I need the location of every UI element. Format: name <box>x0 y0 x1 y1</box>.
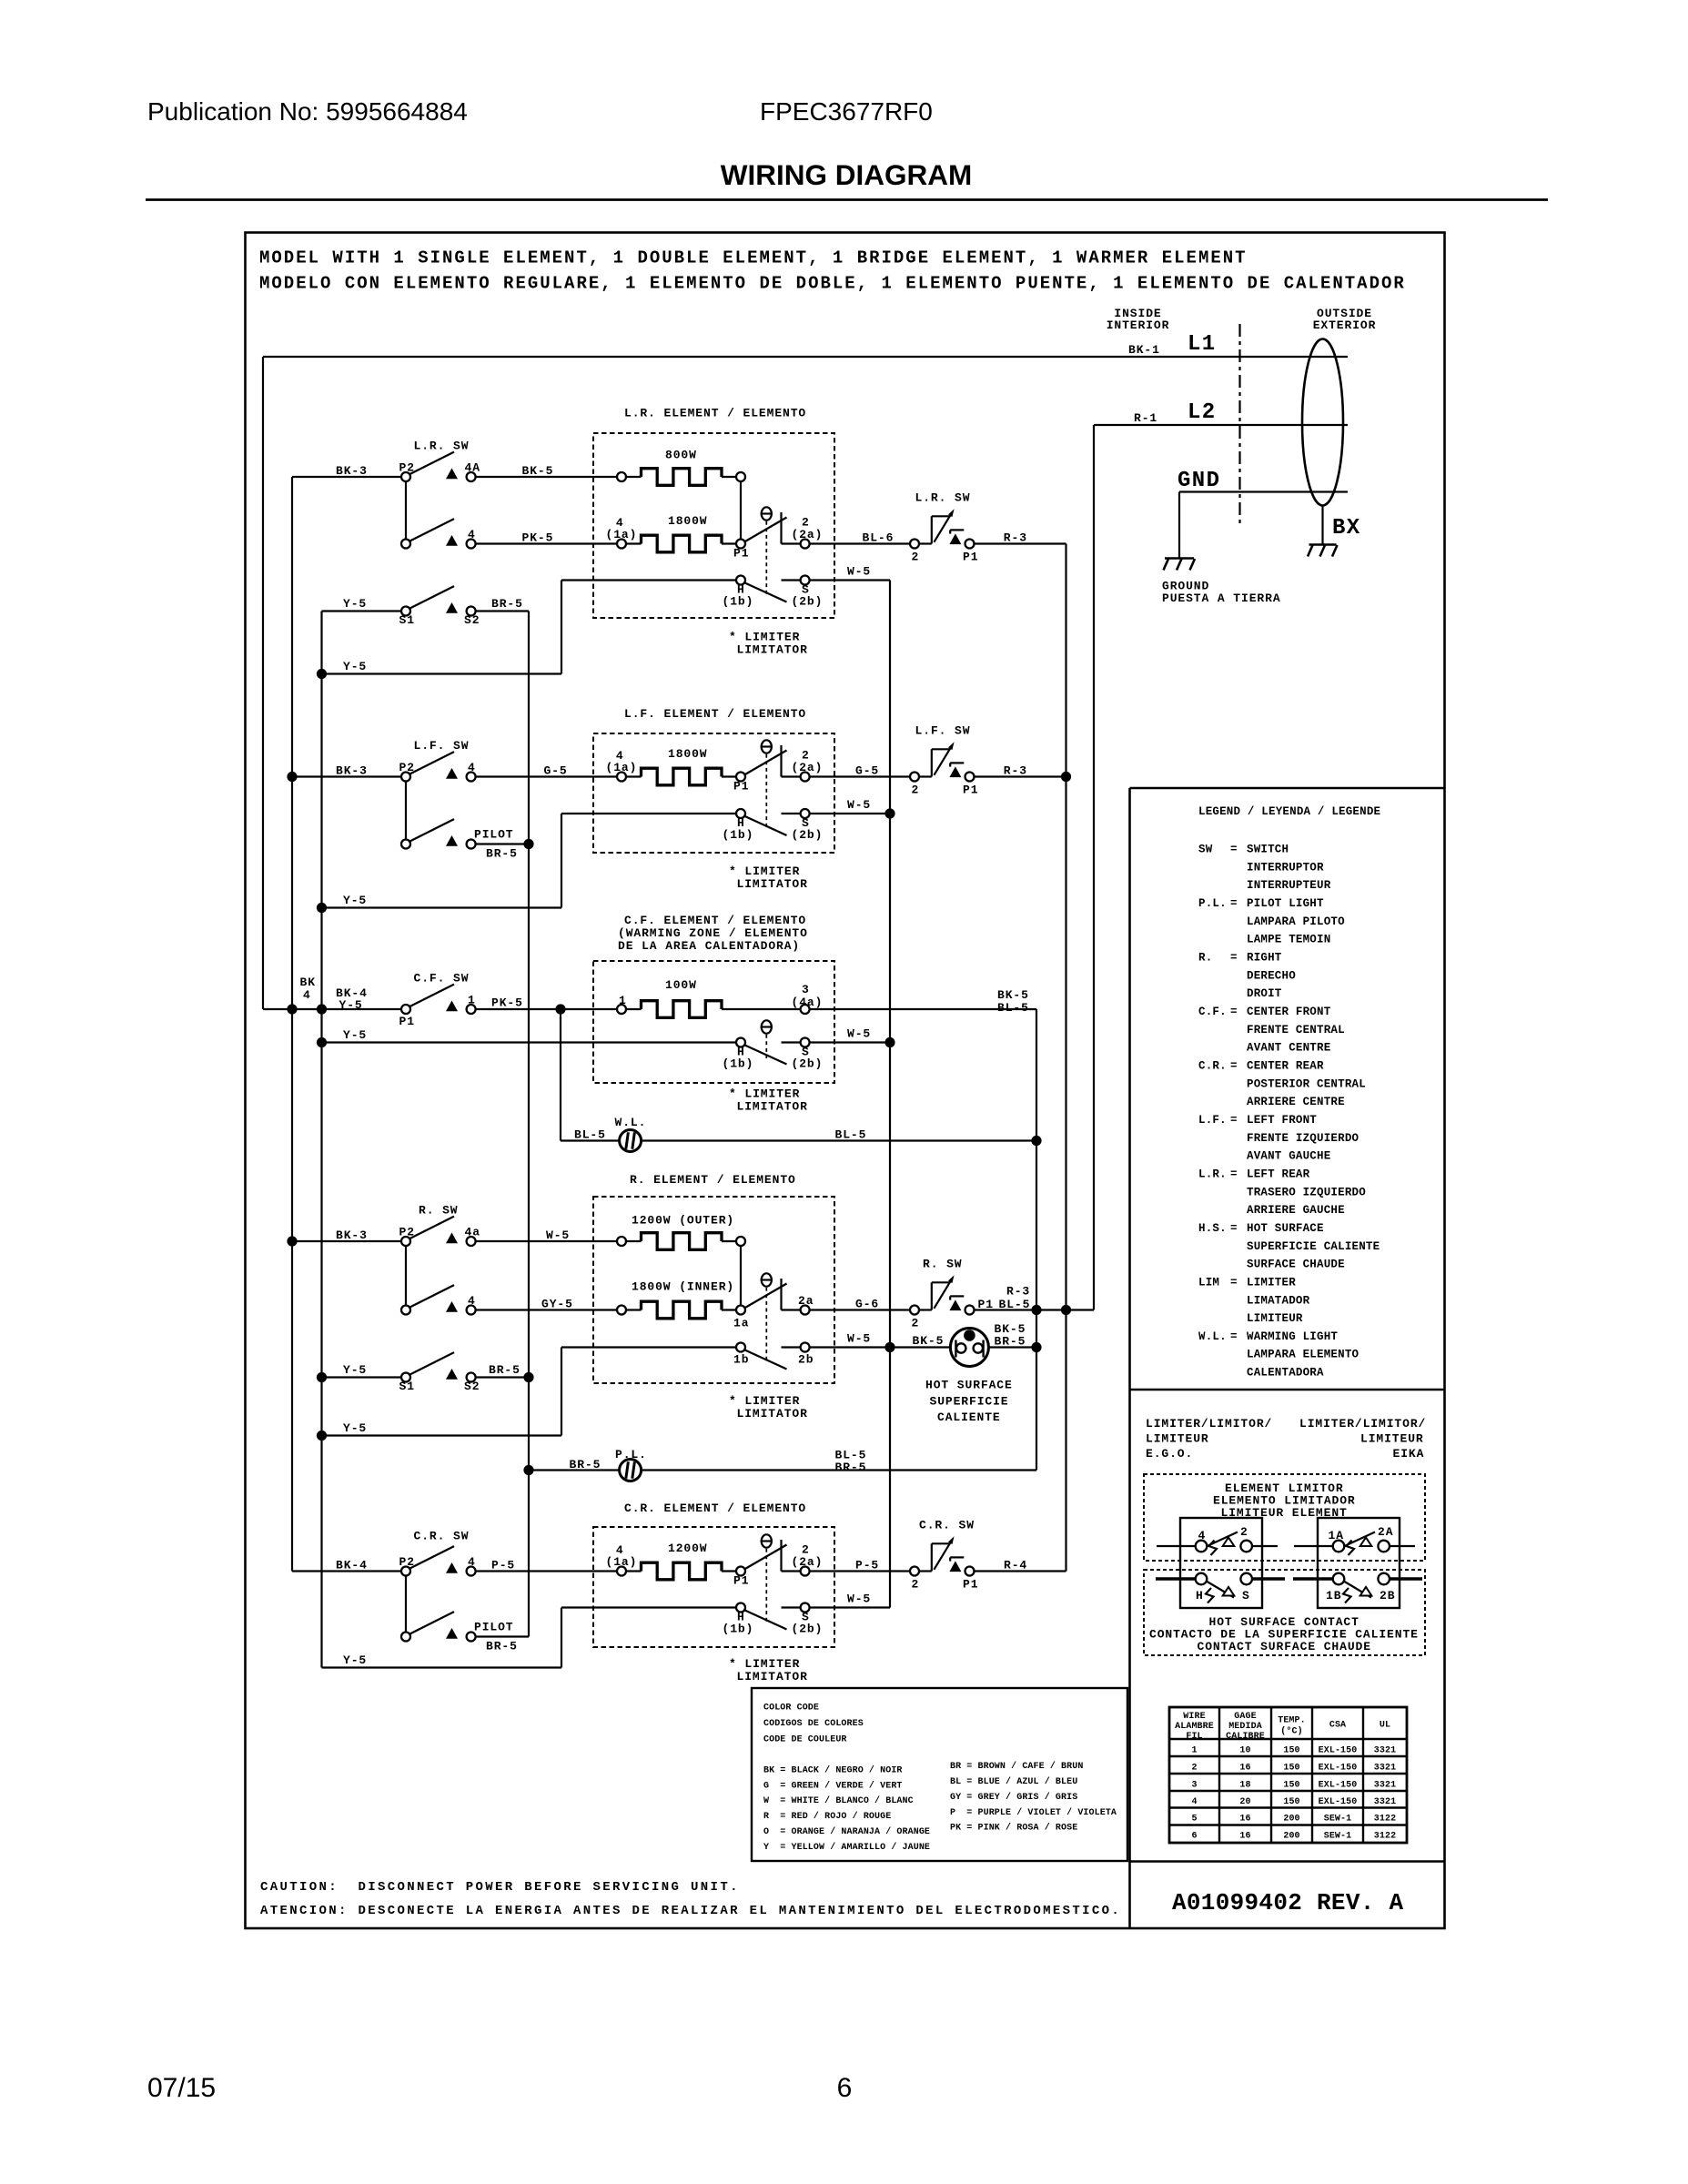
wire 100W to terminal 3(4a) <box>722 1008 801 1010</box>
svg-text:4: 4 <box>303 988 311 1002</box>
terminal P1 of R. SW <box>965 1306 975 1315</box>
wiper triangle of L.R. SW second pole <box>446 535 458 546</box>
resistor 1800W (L.F. element) <box>642 747 723 785</box>
svg-text:G = GREEN / VERDE / VERT: G = GREEN / VERDE / VERT <box>763 1780 903 1791</box>
junction R-3 / L.F. <box>1061 772 1071 782</box>
svg-text:RIGHT: RIGHT <box>1247 951 1282 964</box>
svg-text:ARRIERE CENTRE: ARRIERE CENTRE <box>1247 1096 1345 1108</box>
wire 800W out <box>722 476 737 478</box>
bus R-3/R-4 <box>1065 544 1066 1572</box>
EIKA limiter bottom row left stub <box>1293 1577 1333 1580</box>
svg-text:1b: 1b <box>733 1353 749 1367</box>
svg-text:1200W: 1200W <box>668 1542 708 1555</box>
limiter fixed contact C.R. limiter <box>780 1540 782 1572</box>
thermostat sensor L.R. limiter <box>761 507 773 596</box>
svg-text:(1b): (1b) <box>723 1057 754 1071</box>
svg-text:BL-6: BL-6 <box>863 531 895 545</box>
svg-text:800W: 800W <box>665 449 697 462</box>
svg-text:BR-5: BR-5 <box>486 847 518 861</box>
svg-text:LAMPE TEMOIN: LAMPE TEMOIN <box>1247 934 1330 946</box>
svg-text:PILOT LIGHT: PILOT LIGHT <box>1247 897 1324 910</box>
svg-text:BL = BLUE / AZUL / BLEU: BL = BLUE / AZUL / BLEU <box>950 1776 1077 1787</box>
junction BK-3 / L.F. <box>287 772 297 782</box>
limiter contact arm R. limiter <box>744 1284 787 1309</box>
svg-text:LIMITATOR: LIMITATOR <box>737 1100 808 1114</box>
limiter detail box EIKA limiter <box>1318 1518 1400 1608</box>
svg-text:C.R. SW: C.R. SW <box>414 1530 470 1543</box>
terminal P1 of L.R. SW <box>965 540 975 549</box>
svg-text:Y = YELLOW / AMARILLO / JAUNE: Y = YELLOW / AMARILLO / JAUNE <box>763 1842 930 1853</box>
EIKA limiter top contact arm with heater hook <box>1345 1532 1376 1547</box>
wire 1800W inner out <box>722 1309 737 1310</box>
terminal S1 <box>399 607 415 628</box>
svg-text:1800W: 1800W <box>668 514 708 528</box>
svg-text:BK-5: BK-5 <box>522 464 554 478</box>
terminal 1b of R. limiter <box>733 1343 749 1367</box>
vertical Y-5 link C.R. <box>561 1608 562 1668</box>
wire Y-5 return to L.F. H row <box>322 906 562 908</box>
pilot light P.L. lamp <box>615 1448 647 1481</box>
svg-text:CODIGOS DE COLORES: CODIGOS DE COLORES <box>763 1719 864 1729</box>
EIKA limiter top wiper triangle <box>1360 1537 1372 1546</box>
svg-text:(2b): (2b) <box>792 828 824 842</box>
svg-text:LEGEND / LEYENDA / LEGENDE: LEGEND / LEYENDA / LEGENDE <box>1198 805 1380 818</box>
svg-text:ATENCION: DESCONECTE LA ENERGI: ATENCION: DESCONECTE LA ENERGIA ANTES DE… <box>260 1904 1121 1918</box>
junction Y-5 / C.F. feed <box>317 1004 327 1014</box>
svg-text:W-5: W-5 <box>847 1027 871 1041</box>
svg-text:SW: SW <box>1198 844 1213 856</box>
svg-text:(4a): (4a) <box>792 996 824 1009</box>
svg-text:2a: 2a <box>798 1294 814 1308</box>
thermostat sensor C.R. limiter <box>761 1534 773 1623</box>
junction BR-5 / P.L. <box>523 1465 533 1475</box>
svg-text:3122: 3122 <box>1374 1815 1396 1825</box>
wire Y-5 to R. S1 <box>322 1376 402 1378</box>
resistor 1800W (L.R. inner winding) <box>642 514 723 552</box>
color code box <box>752 1688 1127 1861</box>
wire BK-5 from L.R. SW 4A to element <box>476 476 617 478</box>
terminal 2b of R. limiter <box>798 1343 814 1367</box>
svg-text:H.S.: H.S. <box>1198 1222 1227 1235</box>
svg-text:16: 16 <box>1239 1815 1250 1825</box>
legend box <box>1128 788 1131 1928</box>
svg-text:2: 2 <box>912 784 920 797</box>
svg-text:W.L.: W.L. <box>1198 1330 1227 1343</box>
svg-text:P.L.: P.L. <box>1198 897 1227 910</box>
svg-text:BK-1: BK-1 <box>1128 343 1160 357</box>
svg-text:GND: GND <box>1178 469 1220 493</box>
svg-text:CALIENTE: CALIENTE <box>937 1410 1001 1424</box>
wire gauge table headers <box>1175 1712 1390 1742</box>
svg-text:LIMITATOR: LIMITATOR <box>737 643 808 657</box>
resistor 1200W (C.R. element) <box>642 1542 723 1580</box>
svg-text:=: = <box>1230 1006 1238 1018</box>
wire P-5 to C.R. SW (right) <box>810 1570 910 1572</box>
wiper triangle of R. SW second pole <box>446 1301 458 1312</box>
svg-text:AVANT GAUCHE: AVANT GAUCHE <box>1247 1150 1330 1163</box>
terminal P1 of C.R. SW <box>965 1567 975 1576</box>
junction PK-5 / W.L. drop <box>555 1004 565 1014</box>
svg-text:20: 20 <box>1239 1797 1250 1807</box>
svg-text:1800W: 1800W <box>668 747 708 761</box>
wire BR-5 from pilot to BR bus <box>476 843 529 844</box>
svg-text:SEW-1: SEW-1 <box>1324 1832 1352 1842</box>
bus BL-5/BR-5 <box>1036 1009 1037 1471</box>
terminal P1 of L.R. limiter <box>733 540 749 561</box>
svg-text:EXL-150: EXL-150 <box>1319 1746 1358 1756</box>
svg-text:2: 2 <box>912 1317 920 1330</box>
svg-text:DE LA AREA CALENTADORA): DE LA AREA CALENTADORA) <box>618 939 800 953</box>
junction BR-5 / hot surface row <box>1031 1342 1041 1352</box>
svg-text:W.L.: W.L. <box>615 1116 647 1129</box>
wire 800W to P1 junction <box>740 481 742 540</box>
wire W-5 from L.F. limiter S to W bus <box>810 813 890 814</box>
element input terminal 4 (1a) <box>606 1543 638 1576</box>
color code entries left column <box>763 1765 930 1853</box>
color code entries right column <box>950 1761 1117 1833</box>
svg-text:2: 2 <box>912 551 920 564</box>
svg-text:1B: 1B <box>1326 1589 1341 1603</box>
wire BL-5/BR-5 from pilot light to BL bus <box>642 1469 1036 1471</box>
terminal 4 of C.R. SW <box>467 1555 476 1576</box>
wire BK-3 to L.F. SW P2 <box>292 775 401 777</box>
svg-text:BR-5: BR-5 <box>489 1363 521 1377</box>
svg-text:3321: 3321 <box>1374 1764 1396 1774</box>
svg-text:BR-5: BR-5 <box>995 1335 1026 1349</box>
svg-text:EXTERIOR: EXTERIOR <box>1313 318 1377 332</box>
svg-text:150: 150 <box>1283 1781 1299 1791</box>
svg-text:4: 4 <box>468 761 476 774</box>
svg-text:LIMITER: LIMITER <box>1247 1276 1296 1289</box>
svg-text:LEFT FRONT: LEFT FRONT <box>1247 1114 1317 1127</box>
switch C.R. SW (infinite switch) <box>919 1519 975 1572</box>
svg-text:CAUTION: DISCONNECT POWER BEF: CAUTION: DISCONNECT POWER BEFORE SERVICI… <box>260 1880 740 1895</box>
hot-surface contact arm of L.F. limiter <box>744 816 787 836</box>
svg-text:UL: UL <box>1380 1721 1390 1731</box>
bus L2 <box>1093 425 1095 1310</box>
wire Y-5 return to C.R. H row <box>322 1666 562 1668</box>
svg-text:R-3: R-3 <box>1006 1285 1030 1299</box>
svg-text:LIMITER/LIMITOR/: LIMITER/LIMITOR/ <box>1299 1417 1426 1431</box>
svg-text:W-5: W-5 <box>847 1592 871 1606</box>
wiper triangle of C.R. SW <box>446 1562 458 1573</box>
svg-text:C.F. SW: C.F. SW <box>414 972 470 986</box>
dashed enclosure C.F. element <box>593 961 834 1083</box>
E.G.O. limiter terminal 4 <box>1196 1529 1208 1552</box>
svg-text:BR-5: BR-5 <box>835 1461 867 1474</box>
svg-text:* LIMITER: * LIMITER <box>729 631 800 644</box>
svg-text:P2: P2 <box>399 1555 415 1569</box>
svg-text:P1: P1 <box>963 784 978 797</box>
svg-text:3: 3 <box>802 983 810 996</box>
svg-text:4: 4 <box>468 1294 476 1308</box>
limiter contact arm C.R. limiter <box>744 1545 787 1570</box>
svg-text:=: = <box>1230 1114 1238 1127</box>
svg-text:1: 1 <box>468 993 476 1006</box>
terminal 2a of R. limiter <box>798 1294 814 1315</box>
svg-text:07/15: 07/15 <box>147 2073 216 2103</box>
wire P2 link of L.F. SW <box>405 782 407 840</box>
vertical Y-5 link L.R. <box>561 581 562 674</box>
svg-text:Y-5: Y-5 <box>343 660 367 673</box>
wire L2 (R-1) <box>1094 424 1348 426</box>
junction BR-5 / R. S2 <box>523 1372 533 1382</box>
svg-text:1: 1 <box>619 994 627 1007</box>
svg-text:SUPERFICIE CALIENTE: SUPERFICIE CALIENTE <box>1247 1240 1380 1253</box>
switch C.R. SW contact arm <box>409 1530 469 1570</box>
junction W-5 / L.F. <box>884 808 895 818</box>
terminal 2 (2a) of L.R. limiter <box>792 516 824 549</box>
svg-text:WIRE: WIRE <box>1183 1712 1205 1722</box>
junction BL-5 / W.L. <box>1031 1136 1041 1146</box>
wire P-5 to element <box>476 1570 617 1572</box>
svg-text:G-6: G-6 <box>855 1298 879 1311</box>
svg-text:G-5: G-5 <box>544 764 568 778</box>
svg-text:16: 16 <box>1239 1832 1250 1842</box>
svg-text:P-5: P-5 <box>491 1559 515 1572</box>
svg-text:L.R. SW: L.R. SW <box>915 491 971 505</box>
svg-text:150: 150 <box>1283 1764 1299 1774</box>
svg-text:S1: S1 <box>399 1380 415 1393</box>
svg-text:ALAMBRE: ALAMBRE <box>1175 1722 1214 1732</box>
svg-text:2: 2 <box>1191 1764 1197 1774</box>
svg-text:BK-4: BK-4 <box>336 1559 368 1572</box>
wire P2-P link of L.R. SW <box>405 481 407 540</box>
wire PK-5 from C.F. SW to element <box>476 1008 617 1010</box>
terminal S(2b) of L.R. limiter <box>792 576 824 609</box>
E.G.O. limiter terminal S <box>1240 1573 1252 1603</box>
junction Y-5 / L.R. <box>317 669 327 679</box>
svg-text:P2: P2 <box>399 1225 415 1239</box>
terminal P2 of L.F. SW <box>399 761 415 782</box>
svg-text:ARRIERE GAUCHE: ARRIERE GAUCHE <box>1247 1204 1345 1217</box>
resistor 1800W INNER (R. element) <box>632 1280 734 1319</box>
terminal 4 of R. SW second pole <box>467 1294 476 1315</box>
wire BK-3 to R. SW P2 <box>292 1240 401 1242</box>
wire BR-5 from C.R. pilot to BR bus <box>476 1635 529 1637</box>
wire into 1800W inner <box>626 1309 642 1310</box>
warming light W.L. lamp <box>615 1116 647 1152</box>
dashed enclosure L.R. element <box>593 433 834 618</box>
svg-text:MODEL WITH 1 SINGLE ELEMENT, 1: MODEL WITH 1 SINGLE ELEMENT, 1 DOUBLE EL… <box>259 248 1248 268</box>
switch R. SW contact arm <box>409 1204 458 1239</box>
wire BL-5 drop from PK-5 junction <box>560 1009 561 1141</box>
svg-text:Y-5: Y-5 <box>339 998 363 1012</box>
svg-text:INTERIOR: INTERIOR <box>1107 318 1170 332</box>
svg-text:6: 6 <box>837 2073 853 2103</box>
svg-text:BK-3: BK-3 <box>336 464 368 478</box>
E.G.O. limiter bottom wiper triangle <box>1223 1587 1235 1596</box>
terminal 2 (2a) of L.F. limiter <box>792 749 824 782</box>
wire 1200W outer out <box>722 1240 737 1242</box>
resistor 100W (warming element) <box>642 978 723 1017</box>
junction R-3 / R. row <box>1061 1305 1071 1315</box>
svg-text:LIMATADOR: LIMATADOR <box>1247 1294 1310 1307</box>
wire W-5 from L.R. limiter S to W bus <box>810 579 890 581</box>
terminal S(2b) of L.F. limiter <box>792 809 824 842</box>
svg-text:HOT SURFACE: HOT SURFACE <box>1247 1222 1324 1235</box>
switch R. SW second pole arm <box>409 1285 454 1308</box>
EIKA limiter bottom contact arm with heater hook <box>1345 1582 1372 1598</box>
wire P2 link of C.R. SW <box>405 1576 407 1633</box>
svg-text:E.G.O.: E.G.O. <box>1146 1447 1193 1461</box>
wiper triangle of C.R. pilot pole <box>446 1628 458 1639</box>
svg-text:DROIT: DROIT <box>1247 987 1282 1000</box>
element terminal 800W left <box>617 472 626 481</box>
svg-text:R-3: R-3 <box>1004 531 1027 545</box>
svg-text:2A: 2A <box>1378 1525 1393 1539</box>
terminal PILOT of C.R. SW <box>467 1621 518 1653</box>
switch L.F. SW pilot arm <box>409 819 454 842</box>
svg-text:PK = PINK / ROSA / ROSE: PK = PINK / ROSA / ROSE <box>950 1823 1077 1834</box>
svg-text:R-1: R-1 <box>1134 411 1157 425</box>
element terminal 1200W left <box>617 1237 626 1246</box>
svg-text:P2: P2 <box>399 761 415 774</box>
terminal P of L.F. pilot pole <box>401 840 410 849</box>
svg-text:CALIBRE: CALIBRE <box>1226 1732 1265 1742</box>
wire 1800W out <box>722 542 737 544</box>
svg-text:P.L.: P.L. <box>615 1448 647 1461</box>
svg-text:PUESTA A TIERRA: PUESTA A TIERRA <box>1162 591 1281 605</box>
switch L.F. SW (infinite switch) <box>915 724 971 778</box>
S-side stub of L.R. limiter <box>782 579 801 581</box>
wire L1 (BK-1) <box>263 356 1348 358</box>
E.G.O. limiter bottom row right stub <box>1252 1577 1285 1580</box>
terminal S1 (R.) <box>399 1373 415 1394</box>
svg-text:C.R. SW: C.R. SW <box>919 1519 975 1532</box>
wire into 1200W outer <box>626 1240 642 1242</box>
svg-text:TEMP.: TEMP. <box>1278 1716 1306 1726</box>
wire L.F. element out <box>722 775 737 777</box>
svg-text:BR-5: BR-5 <box>570 1458 601 1471</box>
EIKA limiter bottom row right stub <box>1390 1577 1422 1580</box>
wire BR-5 from R. S2 to BR bus <box>476 1376 529 1378</box>
svg-text:R. SW: R. SW <box>419 1204 459 1218</box>
svg-text:* LIMITER: * LIMITER <box>729 864 800 878</box>
junction Y-5 / L.F. <box>317 903 327 913</box>
svg-text:P = PURPLE / VIOLET / VIOLETA: P = PURPLE / VIOLET / VIOLETA <box>950 1807 1117 1818</box>
svg-text:DERECHO: DERECHO <box>1247 969 1296 982</box>
wire BL-5 from warming light to BL bus <box>642 1139 1036 1141</box>
svg-text:EXL-150: EXL-150 <box>1319 1781 1358 1791</box>
svg-text:10: 10 <box>1239 1746 1250 1756</box>
wire to H terminal of L.F. limiter <box>561 813 736 814</box>
svg-text:LEFT REAR: LEFT REAR <box>1247 1168 1310 1180</box>
svg-text:WARMING LIGHT: WARMING LIGHT <box>1247 1330 1338 1343</box>
svg-text:(2a): (2a) <box>792 528 824 541</box>
svg-text:EXL-150: EXL-150 <box>1319 1797 1358 1807</box>
svg-text:A01099402 REV. A: A01099402 REV. A <box>1172 1889 1404 1916</box>
svg-text:BR = BROWN / CAFE / BRUN: BR = BROWN / CAFE / BRUN <box>950 1761 1083 1772</box>
element terminal inner left <box>617 1306 626 1315</box>
thermostat sensor C.F. limiter <box>761 1020 773 1058</box>
hot-surface contact arm of C.R. limiter <box>744 1610 787 1630</box>
svg-text:R.: R. <box>1198 951 1212 964</box>
svg-text:POSTERIOR CENTRAL: POSTERIOR CENTRAL <box>1247 1077 1366 1090</box>
svg-text:TRASERO IZQUIERDO: TRASERO IZQUIERDO <box>1247 1186 1366 1198</box>
bus BK-3 <box>291 477 293 1572</box>
svg-text:1A: 1A <box>1329 1529 1344 1542</box>
svg-text:FRENTE CENTRAL: FRENTE CENTRAL <box>1247 1024 1345 1036</box>
svg-text:(°C): (°C) <box>1280 1726 1302 1737</box>
svg-text:L.F. SW: L.F. SW <box>414 739 470 753</box>
wire GND drop <box>1178 492 1180 559</box>
svg-text:H: H <box>1196 1589 1204 1603</box>
wire Y-5 return to H row <box>322 672 562 674</box>
wire from R. SW P1 to L2 bus <box>975 1309 1095 1310</box>
svg-text:P-5: P-5 <box>855 1559 879 1572</box>
terminal S(2b) of C.R. limiter <box>792 1603 824 1636</box>
svg-text:* LIMITER: * LIMITER <box>729 1657 800 1671</box>
E.G.O. limiter top contact arm with heater hook <box>1208 1532 1238 1547</box>
svg-text:P1: P1 <box>733 1574 749 1588</box>
svg-text:Y-5: Y-5 <box>343 597 367 611</box>
wire BL-5 to warming light <box>561 1139 620 1141</box>
wiper triangle of L.R. SW <box>446 469 458 480</box>
svg-text:200: 200 <box>1283 1832 1299 1842</box>
wiper triangle of L.F. pilot pole <box>446 835 458 846</box>
terminal 4 of L.F. SW <box>467 761 476 782</box>
switch L.F. SW contact arm <box>409 739 469 774</box>
EIKA limiter top row right stub <box>1390 1545 1415 1547</box>
dashed enclosure C.R. element <box>593 1527 834 1647</box>
E.G.O. limiter terminal 2 <box>1240 1525 1252 1552</box>
svg-text:3: 3 <box>1191 1781 1197 1791</box>
svg-text:(1b): (1b) <box>723 828 754 842</box>
svg-text:W-5: W-5 <box>546 1228 570 1242</box>
wiper triangle S1-S2 (R.) <box>446 1369 458 1380</box>
svg-text:2: 2 <box>1240 1525 1248 1539</box>
svg-text:=: = <box>1230 1059 1238 1072</box>
wire into 800W <box>626 476 642 478</box>
terminal P1 of C.F. SW <box>399 1005 415 1028</box>
svg-text:BK: BK <box>300 976 316 989</box>
switch L.R. SW contact arm <box>409 440 469 475</box>
svg-text:BK-5: BK-5 <box>913 1334 945 1348</box>
svg-text:INTERRUPTOR: INTERRUPTOR <box>1247 861 1324 874</box>
svg-text:BR-5: BR-5 <box>491 597 523 611</box>
wire GND <box>1179 490 1348 492</box>
dashed box ELEMENT LIMITOR <box>1144 1474 1425 1561</box>
svg-text:Y-5: Y-5 <box>343 1028 367 1042</box>
svg-text:P1: P1 <box>963 1578 978 1592</box>
vertical Y-5 link R. <box>561 1348 562 1436</box>
wire R-4 from C.R. SW to R bus <box>975 1570 1066 1572</box>
wire W-5 / BK-5 to hot surface indicator <box>810 1346 951 1348</box>
svg-text:P1: P1 <box>733 780 749 794</box>
junction W-5 / C.F. <box>884 1037 895 1047</box>
junction BK-3 / R. <box>287 1236 297 1246</box>
wire BX drop <box>1321 506 1323 545</box>
limiter contact arm L.R. limiter <box>744 518 787 542</box>
S-side stub of C.R. limiter <box>782 1606 801 1608</box>
wire BR-5 to pilot light <box>529 1469 620 1471</box>
terminal 1a of R. limiter <box>733 1306 749 1330</box>
wire to H terminal of L.R. limiter <box>561 579 736 581</box>
svg-text:R. SW: R. SW <box>923 1258 963 1271</box>
dashed box HOT SURFACE CONTACT <box>1144 1570 1425 1655</box>
terminal 2 (2a) of C.R. limiter <box>792 1543 824 1576</box>
svg-text:* LIMITER: * LIMITER <box>729 1087 800 1101</box>
svg-text:* LIMITER: * LIMITER <box>729 1394 800 1408</box>
junction Y-5 / C.F. H row <box>317 1037 327 1047</box>
wire 1200W to 1a junction <box>740 1246 742 1306</box>
svg-text:3321: 3321 <box>1374 1781 1396 1791</box>
svg-text:=: = <box>1230 1222 1238 1235</box>
svg-text:2b: 2b <box>798 1353 814 1367</box>
resistor 800W (L.R. outer winding) <box>642 449 723 486</box>
thermostat sensor L.F. limiter <box>761 740 773 829</box>
